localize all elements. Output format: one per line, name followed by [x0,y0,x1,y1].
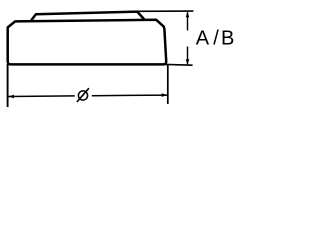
dimension line A/B lower segment [187,47,189,65]
svg-text:A: A [196,28,210,50]
battery body outline [8,20,167,65]
arrowhead down (A/B bottom) [186,59,190,64]
arrowhead right (diameter) [162,93,168,97]
arrowhead left (diameter) [8,95,14,99]
svg-text:B: B [221,28,234,50]
diameter symbol slash [77,88,89,102]
arrowhead up (A/B top) [186,12,190,17]
dimension line A/B upper segment [187,12,189,30]
diameter symbol circle [78,91,87,100]
extension line top for A/B dimension [137,10,193,12]
extension line left for diameter dimension [7,64,9,107]
extension line right for diameter dimension [167,65,169,105]
battery top cap (lid) [32,12,144,20]
dimension line diameter left segment [8,95,74,98]
dimension line diameter right segment [92,94,167,97]
svg-text:/: / [213,28,219,50]
extension line bottom for A/B dimension [165,63,193,66]
